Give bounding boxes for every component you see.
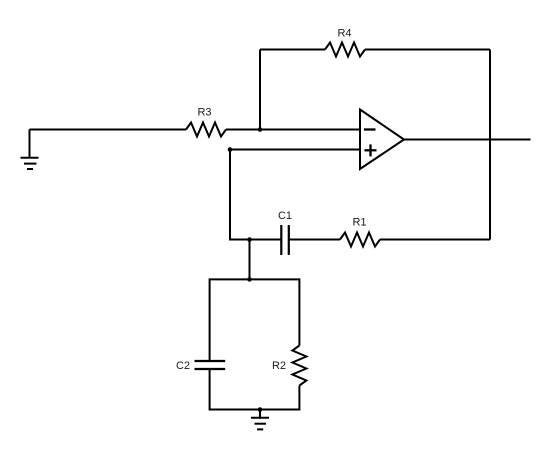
svg-text:R4: R4 [337, 27, 351, 39]
svg-text:R2: R2 [272, 360, 286, 372]
svg-text:R3: R3 [197, 107, 211, 119]
svg-text:C2: C2 [176, 360, 190, 372]
svg-text:C1: C1 [278, 210, 292, 222]
svg-text:R1: R1 [352, 217, 366, 229]
